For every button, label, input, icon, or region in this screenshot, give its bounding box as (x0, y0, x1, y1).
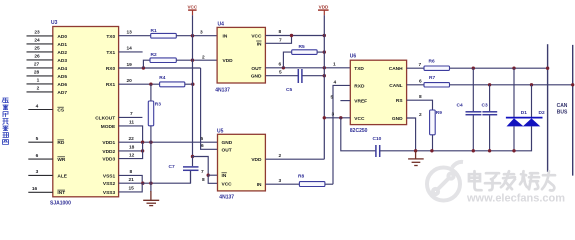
svg-text:R6: R6 (429, 59, 435, 65)
svg-text:3: 3 (279, 178, 282, 184)
svg-text:4: 4 (334, 79, 337, 85)
wire VDD rail vertical (323, 15, 325, 159)
diode cathode bar D1 D2 (506, 117, 543, 119)
svg-text:6: 6 (201, 143, 204, 149)
svg-text:IN: IN (222, 173, 227, 179)
junction R4/VCC rail (191, 83, 194, 86)
svg-text:TX0: TX0 (106, 34, 115, 40)
wire VSS3 stub (119, 183, 143, 192)
wire R3 top lead (150, 84, 152, 101)
svg-text:BUS: BUS (557, 110, 568, 116)
resistor R5 (292, 50, 317, 55)
capacitor C7 (183, 157, 199, 184)
svg-text:18: 18 (129, 145, 135, 151)
svg-text:ALE: ALE (57, 173, 67, 179)
capacitor C3 (482, 85, 497, 151)
junction U4 pin7/pin8 (290, 34, 293, 37)
svg-text:INT: INT (57, 190, 65, 196)
svg-text:5: 5 (279, 70, 282, 76)
wire CANH pin7 to R6 (407, 67, 424, 69)
svg-text:R4: R4 (159, 75, 165, 81)
svg-text:R2: R2 (151, 52, 157, 58)
svg-text:D2: D2 (539, 110, 545, 116)
wire U4 GND pin5 to C5 (265, 75, 298, 77)
wire VSS2 stub (119, 182, 143, 184)
svg-text:MODE: MODE (101, 124, 116, 130)
junction RX0/R2 branch (142, 66, 145, 69)
svg-text:WR: WR (57, 157, 66, 163)
resistor R3 (vertical) (148, 101, 153, 126)
wire U5 pin7 IN stub (208, 174, 217, 176)
junction D1/rail (512, 149, 515, 152)
wire CLKOUT stub (pin7) (119, 116, 143, 118)
watermark logo elecfans (427, 162, 463, 201)
svg-text:C7: C7 (169, 164, 175, 170)
bus line CANH left (547, 44, 549, 172)
svg-text:2: 2 (419, 112, 422, 118)
svg-text:4N137: 4N137 (215, 87, 230, 93)
svg-text:U4: U4 (218, 21, 225, 27)
svg-text:3: 3 (36, 169, 39, 175)
wire U6 RS pin8 corner down to R9 (407, 100, 433, 110)
net label CAN BUS (557, 103, 568, 116)
wire C10 riser down (341, 118, 376, 151)
svg-text:2: 2 (279, 153, 282, 159)
wire R1 output to U4 pin3 IN (176, 35, 217, 37)
svg-text:U5: U5 (217, 128, 224, 134)
junction ground line/VDD1 (149, 141, 152, 144)
svg-text:RD: RD (57, 140, 64, 146)
svg-text:SJA1000: SJA1000 (50, 200, 71, 206)
capacitor C10 (376, 145, 380, 157)
svg-text:8: 8 (419, 94, 422, 100)
svg-text:OUT: OUT (222, 147, 232, 153)
junction CANL/C3 (488, 83, 491, 86)
junction R2/VCC rail (191, 59, 194, 62)
bus line CANL right (572, 45, 574, 176)
wire RXD riser up to U6 pin4 (333, 85, 350, 184)
wire R8 output to RXD riser (325, 183, 333, 185)
wire U5 pin8 VCC jog (208, 175, 217, 183)
wire MODE (pin11) corner down (119, 126, 143, 142)
IC U3 SJA1000 body (53, 27, 119, 197)
junction C4/rail (472, 149, 475, 152)
resistor R6 (424, 66, 450, 70)
U3 left pin names (57, 34, 67, 196)
svg-text:AD5: AD5 (57, 74, 67, 80)
svg-text:24: 24 (34, 38, 40, 44)
U5 pin names (222, 140, 233, 187)
junction VSS/ground vertical (149, 182, 152, 185)
svg-text:R8: R8 (298, 174, 304, 180)
capacitor C4 (466, 68, 482, 151)
watermark text (Chinese brand, drawn as vector strokes) (469, 171, 555, 190)
junction MODE/VDD1 (141, 141, 144, 144)
wire R5 output to VDD rail (317, 51, 324, 53)
junction TX0/VCC rail (191, 34, 194, 37)
svg-text:VDD: VDD (223, 58, 234, 64)
wire VSS row to ground line and C7 bottom (143, 170, 191, 183)
junction VCC rail/C7 feed (191, 155, 194, 158)
U3 left pin stubs AD0-AD7 (27, 36, 53, 92)
svg-text:CAN: CAN (557, 103, 568, 109)
svg-text:7: 7 (201, 169, 204, 175)
svg-text:R5: R5 (299, 44, 305, 50)
resistor R1 (151, 33, 177, 38)
svg-text:28: 28 (34, 70, 40, 76)
svg-text:D1: D1 (521, 110, 527, 116)
wire ground rail (380, 126, 532, 151)
junction U4 pin8 wire/VDD rail (323, 34, 326, 37)
wire U4 pin8 VCC to VDD rail (265, 35, 324, 37)
svg-text:23: 23 (34, 30, 40, 36)
svg-text:7: 7 (279, 38, 282, 44)
junction C5/VDD rail (323, 74, 326, 77)
junction VDD2 (141, 149, 144, 152)
svg-text:VDD3: VDD3 (102, 157, 115, 163)
svg-text:RS: RS (396, 98, 403, 104)
junction OUT/R5 branch (282, 66, 285, 69)
svg-text:22: 22 (129, 136, 135, 142)
svg-text:R1: R1 (151, 28, 157, 34)
svg-text:1: 1 (37, 78, 40, 84)
svg-text:6: 6 (279, 62, 282, 68)
svg-text:IN: IN (257, 182, 262, 188)
svg-text:AD2: AD2 (57, 50, 67, 56)
svg-text:C4: C4 (457, 102, 463, 108)
junction CANL wire/right bus (571, 83, 574, 86)
svg-text:2: 2 (202, 54, 205, 60)
wire RX0 (pin19) across to riser (119, 67, 201, 69)
junction OUT wire/VDD rail (323, 66, 326, 69)
svg-text:82C250: 82C250 (350, 128, 368, 134)
svg-text:GND: GND (251, 74, 262, 80)
svg-text:5: 5 (36, 136, 39, 142)
svg-text:VDD2: VDD2 (102, 149, 115, 155)
svg-text:U6: U6 (350, 53, 357, 59)
svg-text:VDD1: VDD1 (102, 140, 115, 146)
junction VDD rail/VCC stub (323, 116, 326, 119)
svg-text:VREF: VREF (354, 99, 367, 105)
overlines for CS RD WR INT (57, 107, 65, 190)
svg-text:GND: GND (222, 140, 233, 146)
wire R2 output to U4 pin2 VDD (176, 59, 217, 61)
svg-text:CS: CS (57, 107, 64, 113)
wire R3 bottom lead / ground vertical (150, 126, 152, 192)
svg-text:11: 11 (129, 120, 134, 126)
svg-text:7: 7 (130, 111, 133, 117)
wire VDD2 stub (119, 150, 143, 152)
ground symbol left (143, 191, 159, 206)
IC U5 4N137 body (218, 134, 266, 191)
svg-text:CANL: CANL (389, 83, 402, 89)
wire CANL to right bus (450, 84, 573, 86)
svg-text:AD0: AD0 (57, 34, 67, 40)
svg-text:8: 8 (279, 29, 282, 35)
junction CANH wire/left bus (546, 67, 549, 70)
U6 pin names (354, 66, 367, 122)
wire VDD3 stub and riser (119, 142, 143, 158)
wire TX0 from U3 pin13 to R1 (119, 35, 151, 37)
svg-text:8: 8 (130, 169, 133, 175)
U4 pin names (223, 34, 234, 64)
svg-text:C5: C5 (286, 87, 292, 93)
junction VSS2 (141, 182, 144, 185)
wire C5 to VDD rail (302, 75, 324, 77)
wire R5 branch riser (283, 52, 291, 68)
svg-text:VCC: VCC (251, 34, 262, 40)
junction CANH/C4 (472, 67, 475, 70)
capacitor C5 (298, 69, 302, 83)
junction U5 pin7 (207, 174, 210, 177)
svg-text:7: 7 (419, 62, 422, 68)
wire U5 IN pin3 to R8 (265, 183, 299, 185)
wire VCC feed to U5 pins 7 and 8 (193, 157, 209, 176)
svg-text:4: 4 (36, 103, 39, 109)
svg-text:1: 1 (333, 62, 336, 68)
svg-text:VCC: VCC (187, 5, 197, 10)
diode D1 (507, 68, 524, 151)
wire RX1 (pin20) to R4 (119, 83, 160, 85)
svg-text:VDD: VDD (319, 5, 329, 10)
svg-text:20: 20 (127, 78, 133, 84)
wire RX0 riser down to U5 OUT (201, 68, 218, 149)
svg-text:AD4: AD4 (57, 66, 67, 72)
svg-text:8: 8 (202, 177, 205, 183)
wire U6 GND pin2 corner down to rail (407, 118, 416, 151)
wire VDD1 row long wire to U5 GND (119, 141, 218, 143)
svg-text:26: 26 (34, 54, 40, 60)
svg-text:RXD: RXD (354, 83, 365, 89)
wire CANH to left bus (450, 67, 548, 69)
svg-text:AD7: AD7 (57, 90, 67, 96)
svg-text:5: 5 (201, 136, 204, 142)
wire VCC rail vertical (192, 15, 194, 156)
svg-text:RX1: RX1 (106, 82, 116, 88)
svg-text:3: 3 (332, 112, 335, 118)
wire U4 OUT pin6 to U6 TXD (265, 67, 350, 69)
svg-text:14: 14 (127, 46, 133, 52)
svg-text:AD3: AD3 (57, 58, 67, 64)
svg-text:U3: U3 (51, 20, 58, 26)
junction R9/rail (430, 149, 433, 152)
svg-text:VSS3: VSS3 (103, 190, 116, 196)
wire U6 VCC pin3 from VDD rail (324, 117, 350, 119)
svg-text:www.elecfans.com: www.elecfans.com (466, 193, 565, 205)
svg-text:CLKOUT: CLKOUT (95, 115, 115, 121)
svg-text:VDD: VDD (251, 157, 262, 163)
U3 right pin names (95, 34, 116, 196)
junction CANH/D1 (512, 67, 515, 70)
svg-text:AD1: AD1 (57, 42, 67, 48)
svg-text:VSS2: VSS2 (103, 181, 116, 187)
junction CANL/D2 (530, 83, 533, 86)
power symbol VCC (187, 5, 197, 16)
U3 left pin stubs CS RD WR ALE INT (28, 110, 53, 193)
svg-text:CANH: CANH (389, 66, 403, 72)
wire VREF stub (340, 100, 350, 102)
svg-text:13: 13 (127, 30, 133, 36)
junction RX1/R3 top (149, 83, 152, 86)
svg-text:4N137: 4N137 (219, 194, 234, 200)
U3 right pin numbers (127, 30, 135, 192)
resistor R9 (vertical) (430, 110, 436, 135)
resistor R8 (299, 182, 325, 187)
svg-text:GND: GND (392, 116, 403, 122)
svg-text:21: 21 (129, 177, 135, 183)
svg-text:TX1: TX1 (106, 50, 115, 56)
wire R4 output to VCC rail (185, 83, 193, 85)
resistor R2 (150, 58, 176, 63)
svg-text:R7: R7 (429, 75, 435, 81)
svg-text:VCC: VCC (222, 181, 233, 187)
svg-text:6: 6 (36, 153, 39, 159)
svg-text:3: 3 (200, 30, 203, 36)
wire VSS1 stub (119, 175, 143, 183)
power symbol VDD (318, 5, 329, 16)
overline U5 IN(pin7) (222, 172, 227, 174)
svg-text:R3: R3 (155, 102, 161, 108)
wire CANL pin6 to R7 (407, 84, 424, 86)
svg-text:VSS1: VSS1 (103, 173, 116, 179)
svg-text:25: 25 (34, 46, 40, 52)
IC U6 82C250 body (350, 60, 406, 124)
wire TX1 stub (pin14, unconnected) (119, 51, 143, 53)
svg-text:6: 6 (419, 79, 422, 85)
wire U4 pin7 jog up to pin8 (265, 36, 291, 44)
svg-text:C3: C3 (482, 102, 488, 108)
svg-text:19: 19 (127, 62, 133, 68)
junction VCC stub/C10 riser (339, 116, 342, 119)
wire R9 bottom to rail (432, 135, 434, 151)
MCU-side vertical caption (Chinese, drawn as vector strokes) (2, 98, 9, 145)
ground symbol right (408, 151, 424, 166)
overline U4 IN(pin7) (256, 40, 261, 42)
svg-text:IN: IN (223, 34, 228, 40)
junction GND drop/rail (414, 149, 417, 152)
svg-text:C10: C10 (373, 136, 382, 142)
svg-text:AD6: AD6 (57, 82, 67, 88)
svg-text:VCC: VCC (354, 116, 365, 122)
svg-text:27: 27 (34, 62, 40, 68)
wire U5 VDD pin2 to VDD rail corner (265, 158, 324, 160)
svg-text:2: 2 (37, 86, 40, 92)
diode D2 (523, 85, 541, 127)
svg-text:OUT: OUT (251, 66, 261, 72)
wire R2 branch jog up (143, 60, 150, 68)
IC U4 4N137 body (217, 27, 265, 83)
U5 pin numbers left (201, 136, 206, 183)
resistor R7 (424, 83, 450, 87)
svg-text:15: 15 (129, 186, 135, 192)
resistor R4 (160, 82, 185, 87)
junction R5/VDD rail (323, 50, 326, 53)
U3 left pin numbers (32, 30, 40, 192)
svg-text:RX0: RX0 (106, 66, 116, 72)
junction C3/rail (488, 149, 491, 152)
svg-text:16: 16 (32, 186, 38, 192)
svg-text:12: 12 (129, 152, 135, 158)
svg-text:IN: IN (257, 41, 262, 47)
svg-text:TXD: TXD (354, 66, 364, 72)
svg-text:5: 5 (331, 95, 334, 101)
svg-text:R9: R9 (436, 110, 442, 116)
